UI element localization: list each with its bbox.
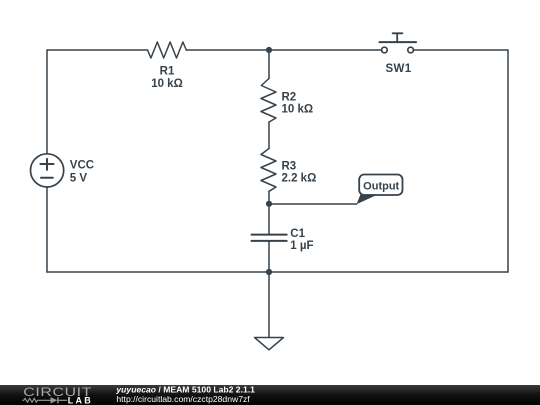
svg-text:R1: R1 — [160, 66, 175, 78]
svg-text:R3: R3 — [282, 161, 297, 173]
svg-text:5 V: 5 V — [70, 173, 88, 185]
logo diode triangle — [51, 397, 58, 403]
ground — [255, 338, 284, 350]
wire left rail lower — [46, 188, 48, 272]
wire node to capacitor — [268, 204, 270, 235]
svg-text:LAB: LAB — [68, 395, 93, 405]
wire switch right to corner — [414, 49, 508, 51]
svg-text:1 µF: 1 µF — [290, 240, 313, 252]
switch SW1 tee — [393, 32, 403, 34]
svg-text:10 kΩ: 10 kΩ — [282, 104, 314, 116]
wire left rail upper — [46, 50, 48, 153]
capacitor C1 — [252, 235, 287, 241]
node junction output — [266, 201, 272, 207]
svg-text:2.2 kΩ: 2.2 kΩ — [282, 173, 317, 185]
logo diode glyph — [44, 399, 67, 401]
node junction bottom — [266, 269, 272, 275]
svg-text:VCC: VCC — [70, 160, 94, 172]
wire top-left horizontal — [47, 49, 148, 51]
wire R3 to node — [268, 191, 270, 204]
wire node to output flag — [269, 203, 357, 205]
voltage source minus sign — [41, 177, 53, 179]
svg-text:C1: C1 — [290, 228, 305, 240]
wire R2 to R3 — [268, 122, 270, 149]
footer bar — [0, 385, 540, 405]
node junction top — [266, 47, 272, 53]
svg-text:yuyuecao / MEAM 5100 Lab2 2.1.: yuyuecao / MEAM 5100 Lab2 2.1.1 — [115, 384, 255, 394]
resistor R3 — [261, 149, 276, 192]
wire bottom rail — [47, 271, 508, 273]
voltage source plus sign — [40, 159, 53, 170]
switch SW1 right terminal — [408, 47, 414, 53]
switch SW1 bar — [380, 41, 417, 43]
wire right rail — [507, 50, 509, 272]
svg-text:10 kΩ: 10 kΩ — [151, 78, 183, 90]
output flag tail — [357, 194, 379, 204]
wire mid rail junction to R2 — [268, 50, 270, 79]
resistor R2 — [261, 79, 276, 123]
svg-text:http://circuitlab.com/czctp28d: http://circuitlab.com/czctp28dnw7zf — [116, 394, 250, 404]
switch SW1 stem — [396, 33, 398, 42]
svg-text:R2: R2 — [282, 92, 297, 104]
wire top middle — [186, 49, 381, 51]
voltage source VCC circle — [30, 154, 63, 187]
wire bottom node to ground — [268, 272, 270, 338]
switch SW1 left terminal — [382, 47, 388, 53]
resistor R1 — [148, 42, 187, 58]
output flag box — [359, 175, 402, 196]
svg-text:SW1: SW1 — [385, 63, 411, 75]
svg-text:Output: Output — [363, 181, 399, 193]
wire capacitor to bottom rail — [268, 241, 270, 272]
logo resistor glyph — [23, 398, 45, 402]
